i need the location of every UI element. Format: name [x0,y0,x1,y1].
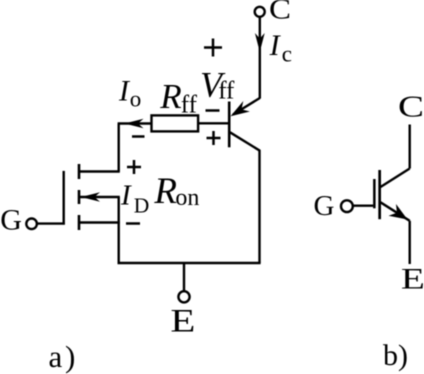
svg-text:ff: ff [218,78,235,105]
svg-text:b): b) [383,339,408,372]
svg-text:a: a [49,339,63,374]
svg-text:R: R [159,77,181,116]
svg-text:D: D [134,194,150,218]
svg-text:ff: ff [181,92,198,119]
svg-text:): ) [65,339,75,374]
svg-text:o: o [130,87,142,112]
svg-text:C: C [398,88,424,123]
svg-text:E: E [401,264,424,296]
svg-text:c: c [282,42,292,67]
svg-text:R: R [153,171,177,212]
svg-text:E: E [170,303,195,339]
svg-text:G: G [0,204,22,237]
svg-text:C: C [269,0,291,26]
svg-text:I: I [120,180,132,212]
svg-text:G: G [314,190,335,222]
svg-text:on: on [175,185,199,211]
